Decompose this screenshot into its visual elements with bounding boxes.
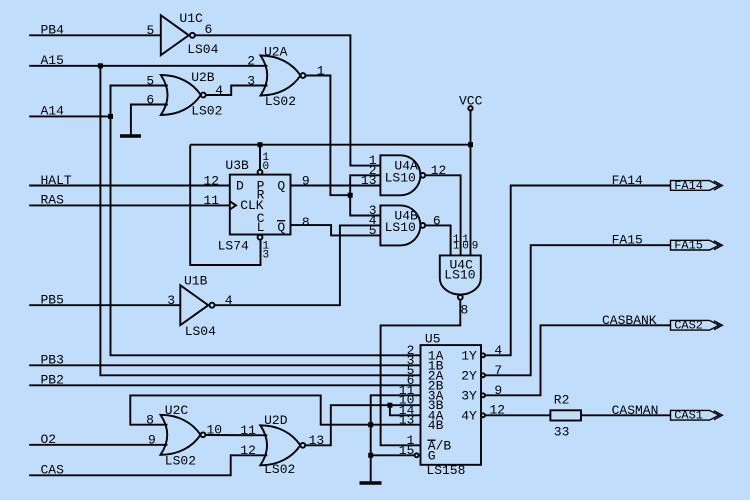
nor-gate U2C — [161, 415, 201, 455]
svg-text:U2C: U2C — [165, 403, 189, 418]
wire U3B Q to U4A pin13 — [291, 185, 381, 187]
svg-text:PB2: PB2 — [41, 373, 64, 388]
U5 4Y bubble — [481, 413, 485, 417]
svg-text:8: 8 — [461, 302, 469, 317]
port flag FA15 — [671, 240, 720, 250]
svg-text:3: 3 — [167, 293, 175, 308]
svg-text:4: 4 — [215, 83, 223, 98]
wire A15 riser to U5 2A — [100, 66, 420, 376]
wire U2C output to U2D pin11 — [205, 434, 267, 436]
svg-text:LS158: LS158 — [426, 463, 465, 478]
svg-text:3: 3 — [247, 74, 255, 89]
svg-text:4: 4 — [225, 293, 233, 308]
svg-text:CAS2: CAS2 — [674, 319, 703, 333]
node U2A output junction — [348, 193, 353, 198]
wire U3B Qbar to U4B pin5 — [291, 225, 381, 235]
svg-text:9: 9 — [302, 173, 310, 188]
svg-text:10: 10 — [207, 423, 223, 438]
svg-text:LS02: LS02 — [165, 454, 196, 469]
U3B CLK triangle — [230, 201, 236, 209]
inverter U1C — [161, 15, 189, 55]
wire R2 to CAS1 flag — [581, 414, 671, 416]
svg-text:FA14: FA14 — [612, 173, 643, 188]
port flag CAS2 — [671, 320, 720, 330]
svg-text:U3B: U3B — [225, 158, 249, 173]
wire U2B output to U2A pin3 — [206, 86, 268, 96]
svg-text:8: 8 — [302, 215, 310, 230]
svg-text:VCC: VCC — [459, 93, 483, 108]
svg-text:LS74: LS74 — [218, 239, 249, 254]
inverter U1B — [180, 285, 208, 325]
node 3B junction — [387, 403, 392, 408]
svg-text:R2: R2 — [554, 393, 570, 408]
nor-gate U2A — [261, 56, 301, 96]
svg-text:5: 5 — [369, 223, 377, 238]
node VCC rail junction — [468, 142, 473, 147]
svg-text:12: 12 — [204, 173, 220, 188]
node A15 junction — [98, 63, 103, 68]
wire A14 riser to U2B pin5 and U5 1A — [111, 86, 421, 356]
wire ground net 3A — [371, 395, 421, 481]
wire U4C output to U5 A/B — [381, 300, 461, 446]
svg-text:LS02: LS02 — [265, 94, 296, 109]
svg-text:9: 9 — [472, 240, 479, 252]
svg-text:2: 2 — [247, 54, 255, 69]
wire HALT to U3B D — [29, 185, 230, 187]
node ground G junction — [368, 453, 373, 458]
svg-text:CASMAN: CASMAN — [612, 403, 659, 418]
wire PB4 to U1C input — [29, 34, 161, 36]
svg-text:12: 12 — [240, 443, 256, 458]
svg-text:D: D — [236, 179, 244, 194]
svg-text:7: 7 — [494, 363, 502, 378]
wire O2 to U2C pin9 — [29, 444, 167, 446]
ground below U5 — [360, 481, 382, 484]
wire U2A output to node — [305, 76, 350, 196]
U5 1Y bubble — [481, 353, 485, 357]
svg-text:6: 6 — [146, 92, 154, 107]
svg-text:U2D: U2D — [264, 413, 288, 428]
svg-text:FA14: FA14 — [674, 179, 703, 193]
svg-text:1Y: 1Y — [461, 348, 477, 363]
svg-text:Q: Q — [277, 220, 285, 235]
svg-text:8: 8 — [146, 413, 154, 428]
U3B PRE bubble — [258, 170, 263, 175]
wire U1B output to U4B pin4 — [215, 225, 381, 305]
svg-text:3Y: 3Y — [461, 388, 477, 403]
nand U4B — [380, 205, 420, 245]
svg-text:U2A: U2A — [264, 44, 288, 59]
wire RAS to U3B CLK — [29, 204, 230, 206]
svg-text:1: 1 — [453, 240, 460, 252]
wire PB2 to U5 2B — [29, 384, 420, 386]
svg-text:1: 1 — [317, 63, 325, 78]
svg-text:RAS: RAS — [41, 193, 65, 208]
svg-text:13: 13 — [399, 413, 415, 428]
svg-text:11: 11 — [240, 423, 256, 438]
svg-text:U2B: U2B — [191, 70, 215, 85]
svg-text:Q: Q — [277, 179, 285, 194]
U5 A overbar — [428, 439, 436, 441]
svg-text:R: R — [257, 188, 265, 203]
svg-text:12: 12 — [490, 403, 506, 418]
svg-text:A15: A15 — [41, 53, 64, 68]
svg-text:33: 33 — [554, 424, 570, 439]
svg-text:0: 0 — [462, 240, 469, 252]
node ground 4B junction — [368, 422, 373, 427]
wire G pin from ground — [371, 454, 415, 456]
wire PRE stub to U3B — [259, 145, 261, 170]
wire U2B pin6 grounded stub — [131, 105, 168, 135]
wire 3Y to CAS2 flag — [485, 325, 671, 395]
port flag CAS1 — [671, 410, 720, 420]
nand U4C — [440, 255, 481, 294]
wire preset rail — [190, 144, 470, 146]
svg-text:U5: U5 — [425, 331, 441, 346]
svg-text:4B: 4B — [428, 418, 444, 433]
svg-text:PB3: PB3 — [41, 353, 64, 368]
U5 G bubble — [415, 453, 419, 457]
svg-text:FA15: FA15 — [674, 239, 703, 253]
wire 4Y to resistor R2 — [485, 414, 550, 416]
svg-text:12: 12 — [431, 163, 447, 178]
svg-text:CAS1: CAS1 — [674, 409, 703, 423]
svg-text:2Y: 2Y — [461, 368, 477, 383]
power VCC — [468, 106, 472, 110]
mux U5 box — [421, 345, 482, 465]
wire 3B to 4A jog — [390, 405, 421, 415]
svg-text:CASBANK: CASBANK — [602, 313, 657, 328]
wire U1C output to U4A pin1 — [195, 35, 381, 165]
svg-text:6: 6 — [205, 22, 213, 37]
wire VCC to U4C pin9 — [470, 111, 472, 256]
svg-text:6: 6 — [433, 213, 441, 228]
nor-gate U2B — [161, 75, 201, 115]
svg-text:O2: O2 — [41, 432, 57, 447]
svg-text:15: 15 — [399, 443, 415, 458]
svg-text:HALT: HALT — [41, 173, 72, 188]
svg-text:FA15: FA15 — [612, 233, 643, 248]
svg-text:LS10: LS10 — [444, 268, 475, 283]
svg-text:LS04: LS04 — [187, 42, 218, 57]
svg-text:PB4: PB4 — [41, 23, 65, 38]
wire node to U4A pin2 and U4B pin3 — [350, 175, 380, 215]
svg-text:A14: A14 — [41, 104, 65, 119]
resistor R2 — [550, 410, 581, 420]
svg-text:5: 5 — [147, 23, 155, 38]
wire A15 — [29, 65, 267, 67]
svg-text:CAS: CAS — [41, 463, 65, 478]
svg-text:L: L — [257, 220, 265, 235]
svg-text:4: 4 — [494, 343, 502, 358]
U5 3Y bubble — [481, 393, 485, 397]
svg-text:4Y: 4Y — [461, 408, 477, 423]
port flag FA14 — [671, 181, 720, 191]
wire 2Y to FA15 flag — [485, 245, 671, 375]
wire A14 — [29, 115, 110, 117]
U5 2Y bubble — [481, 373, 485, 377]
node preset rail junction — [258, 142, 263, 147]
svg-text:11: 11 — [204, 193, 220, 208]
svg-text:13: 13 — [309, 433, 325, 448]
ground below U2B — [120, 134, 141, 137]
wire PB5 to U1B — [29, 304, 180, 306]
svg-text:LS10: LS10 — [385, 170, 416, 185]
svg-text:LS04: LS04 — [185, 324, 216, 339]
svg-text:G: G — [428, 448, 436, 463]
U3B CLR bubble — [258, 235, 263, 240]
svg-text:9: 9 — [494, 383, 502, 398]
wire preset loop to CLR — [190, 145, 260, 265]
svg-text:LS10: LS10 — [385, 220, 416, 235]
svg-text:U1C: U1C — [179, 11, 203, 26]
wire 1Y to FA14 flag — [485, 186, 671, 356]
U3B Qbar overbar — [277, 220, 285, 222]
wire CAS to U2D pin12 — [29, 455, 267, 475]
svg-text:LS02: LS02 — [191, 103, 222, 118]
svg-text:5: 5 — [146, 73, 154, 88]
flip-flop U3B box — [230, 175, 291, 235]
svg-text:U1B: U1B — [184, 274, 208, 289]
wire U4B output to U4C pin11 — [425, 225, 450, 255]
svg-text:9: 9 — [148, 433, 156, 448]
wire PB3 to U5 1B — [29, 364, 420, 366]
svg-text:LS02: LS02 — [264, 462, 295, 477]
wire U2C pin8 net to U5 4B — [130, 395, 420, 424]
svg-text:13: 13 — [361, 173, 377, 188]
nand U4A — [380, 155, 420, 195]
svg-text:PB5: PB5 — [41, 293, 64, 308]
node A14 junction — [108, 114, 113, 119]
svg-text:3: 3 — [263, 250, 270, 262]
wire U4A output to U4C pin10 — [425, 175, 460, 255]
svg-text:0: 0 — [263, 161, 270, 173]
wire U2D output to U5 3B — [305, 405, 420, 445]
nor-gate U2D — [260, 425, 300, 465]
